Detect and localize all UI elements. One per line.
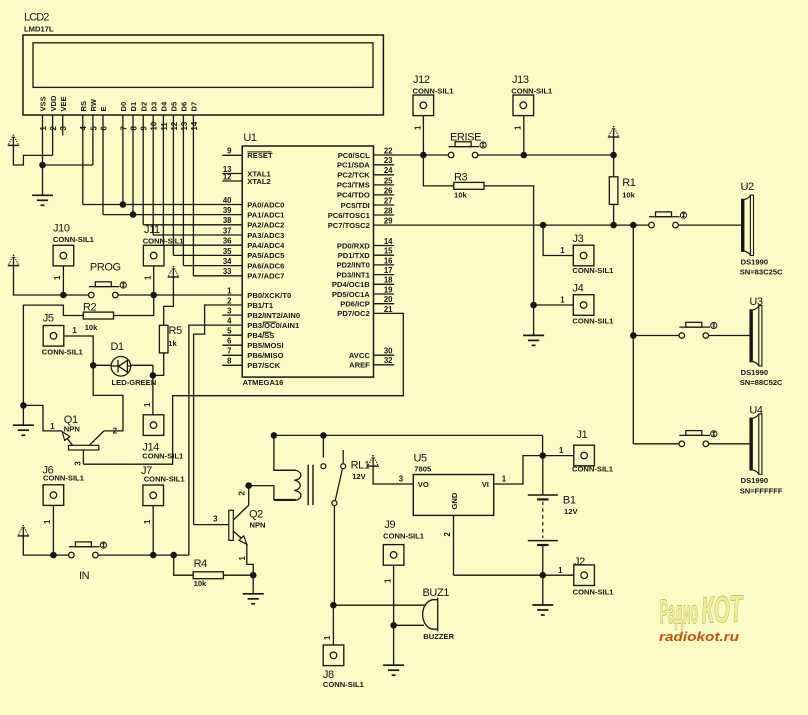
svg-text:PB0/XCK/T0: PB0/XCK/T0 — [247, 291, 291, 300]
U1 pin 26 PC4/TDO — [374, 194, 395, 196]
svg-text:PB6/MISO: PB6/MISO — [247, 351, 283, 360]
power flag VCC (PROG) — [8, 255, 19, 266]
power flag VCC (R5) — [168, 266, 179, 277]
voltage regulator U5 7805 body — [413, 475, 493, 516]
svg-text:PC5/TDI: PC5/TDI — [341, 201, 370, 210]
wire J10 pin 1 down — [62, 266, 64, 295]
wire Q1 base down — [82, 450, 84, 464]
svg-text:12V: 12V — [564, 507, 578, 516]
svg-text:VSS: VSS — [39, 96, 48, 111]
svg-text:PC0/SCL: PC0/SCL — [338, 151, 370, 160]
svg-text:38: 38 — [223, 216, 232, 225]
svg-text:CONN-SIL1: CONN-SIL1 — [572, 465, 614, 474]
svg-text:D5: D5 — [170, 101, 179, 111]
svg-text:RW: RW — [89, 98, 98, 111]
junction J6 on IN line — [50, 552, 57, 559]
relay RL1 contact — [321, 450, 346, 506]
wire LCD pin 3 VEE stub — [62, 115, 64, 136]
wire to U4 probe — [709, 443, 750, 445]
svg-text:36: 36 — [223, 237, 232, 246]
U1 pin 9 RESET — [222, 154, 242, 156]
svg-text:CONN-SIL1: CONN-SIL1 — [573, 587, 615, 596]
wire J9 pin 1 down — [393, 565, 395, 625]
svg-text:10: 10 — [150, 121, 159, 130]
svg-text:29: 29 — [384, 217, 393, 226]
connector J7 CONN-SIL1 — [143, 485, 164, 506]
svg-text:1: 1 — [72, 326, 77, 335]
svg-text:39: 39 — [223, 206, 232, 215]
U1 pin 18 PD4/OC1B — [374, 283, 395, 285]
wire U1 pin1 PB0 to PROG switch — [118, 294, 242, 296]
svg-text:PD5/OC1A: PD5/OC1A — [332, 290, 370, 299]
microcontroller U1 ATMEGA16 body — [242, 146, 373, 377]
junction R5 bottom — [150, 372, 157, 379]
wire J6 pin 1 down to IN line — [52, 506, 54, 555]
wire Q2 collector up — [248, 486, 250, 506]
svg-text:13: 13 — [180, 121, 189, 130]
U1 pin 32 AREF — [374, 364, 395, 366]
svg-text:CONN-SIL1: CONN-SIL1 — [572, 317, 614, 326]
connector J13 CONN-SIL1 — [513, 95, 534, 116]
svg-text:PB5/MOSI: PB5/MOSI — [247, 341, 283, 350]
svg-text:2: 2 — [49, 126, 58, 131]
svg-text:SN=FFFFFF: SN=FFFFFF — [740, 486, 783, 495]
svg-text:21: 21 — [384, 305, 393, 314]
svg-text:J12: J12 — [413, 74, 430, 86]
wire to ground — [22, 405, 24, 425]
svg-text:PD7/OC2: PD7/OC2 — [337, 309, 370, 318]
svg-text:CONN-SIL1: CONN-SIL1 — [144, 474, 186, 483]
svg-text:AREF: AREF — [349, 361, 370, 370]
svg-text:1: 1 — [143, 275, 152, 280]
svg-text:D4: D4 — [160, 101, 169, 111]
svg-text:DS1990: DS1990 — [741, 476, 768, 485]
svg-text:PC6/TOSC1: PC6/TOSC1 — [328, 211, 371, 220]
wire U5 VI to battery node — [494, 456, 543, 484]
svg-text:PC3/TMS: PC3/TMS — [337, 181, 370, 190]
wire LCD pin 1 VSS down to ground — [42, 115, 44, 195]
svg-text:1: 1 — [513, 125, 522, 130]
junction rail/coil — [271, 432, 278, 439]
connector J4 CONN-SIL1 — [573, 295, 594, 316]
svg-text:6: 6 — [99, 126, 108, 131]
junction VSS/RW — [39, 162, 46, 169]
wire ERISE to R1/VCC node — [478, 154, 614, 156]
wire RW to VSS node — [43, 164, 93, 166]
svg-text:BUZ1: BUZ1 — [423, 587, 450, 599]
push button (U2 reader) — [649, 212, 680, 228]
svg-text:24: 24 — [384, 166, 393, 175]
RESET overline — [247, 151, 271, 153]
junction B1-/J2/ground — [540, 572, 547, 579]
wire E to U1 PA1 (pin 39) — [103, 214, 242, 216]
U1 pin 24 PC2/TCK — [374, 174, 395, 176]
svg-text:1: 1 — [53, 275, 62, 280]
svg-text:D6: D6 — [180, 102, 189, 112]
svg-text:J13: J13 — [512, 74, 529, 86]
connector J9 CONN-SIL1 — [383, 545, 404, 566]
U1 pin 28 PC6/TOSC1 — [374, 214, 395, 216]
wire VCC to IN switch — [23, 536, 68, 555]
wire LCD D6 down — [182, 115, 184, 266]
svg-text:14: 14 — [384, 237, 393, 246]
junction PB0/J11/R2 — [150, 292, 157, 299]
wire U1 pin4 PB3 to IN line — [189, 325, 242, 555]
wire R4 right to Q2 emitter node — [224, 574, 254, 576]
junction J13 on PC0 wire — [521, 152, 528, 159]
junction J7 on IN line — [150, 552, 157, 559]
resistor R1 — [609, 177, 618, 205]
wire D6 to U1 PA6 line — [183, 265, 242, 267]
wire to ground — [393, 625, 395, 665]
svg-text:CONN-SIL1: CONN-SIL1 — [53, 235, 95, 244]
wire D3 to U1 PA3 line — [163, 244, 242, 246]
svg-text:PD0/RXD: PD0/RXD — [337, 241, 370, 250]
connector J10 CONN-SIL1 — [53, 245, 74, 266]
svg-text:12: 12 — [170, 121, 179, 130]
svg-text:PA0/ADC0: PA0/ADC0 — [247, 200, 284, 209]
svg-text:1: 1 — [143, 519, 152, 524]
ground (LCD VSS) — [32, 195, 53, 205]
svg-text:PA3/ADC3: PA3/ADC3 — [247, 231, 284, 240]
wire R5 bottom to LED node — [153, 353, 164, 375]
wire LCD D1 down — [132, 115, 134, 215]
wire Q2 emitter down — [247, 544, 253, 575]
svg-text:LMD17L: LMD17L — [24, 24, 54, 33]
wire Q1 emitter to ground node — [23, 405, 62, 431]
wire +12V rail — [274, 434, 543, 436]
wire U1 pin29 PC7 to U2 switch — [374, 224, 649, 226]
junction LED anode node — [90, 362, 97, 369]
svg-text:SN=83C25C: SN=83C25C — [740, 268, 783, 277]
svg-text:22: 22 — [384, 146, 393, 155]
svg-text:1: 1 — [502, 475, 507, 484]
wire relay arm node to buzzer — [333, 604, 424, 606]
svg-text:CONN-SIL1: CONN-SIL1 — [511, 86, 553, 95]
svg-text:J5: J5 — [43, 313, 54, 325]
svg-text:11: 11 — [160, 122, 169, 131]
svg-text:18: 18 — [384, 276, 393, 285]
connector J11 CONN-SIL1 — [143, 245, 164, 266]
svg-text:D2: D2 — [139, 102, 148, 112]
wire to J1 — [543, 455, 574, 457]
junction J3 branch — [540, 222, 547, 229]
svg-text:U1: U1 — [243, 132, 257, 144]
wire battery minus — [542, 545, 544, 575]
svg-text:19: 19 — [384, 285, 393, 294]
wire U5 GND down — [453, 515, 455, 575]
svg-text:3: 3 — [73, 461, 82, 466]
wire LCD RS down — [82, 115, 84, 205]
svg-text:32: 32 — [384, 356, 393, 365]
svg-text:VO: VO — [418, 480, 429, 489]
svg-text:1: 1 — [43, 519, 52, 524]
svg-text:8: 8 — [227, 357, 232, 366]
svg-text:1: 1 — [143, 402, 152, 407]
wire R2 right to PB0 node — [114, 295, 154, 316]
svg-text:D0: D0 — [119, 102, 128, 112]
U1 pin 23 PC1/SDA — [374, 164, 395, 166]
svg-text:30: 30 — [384, 347, 393, 356]
svg-text:7: 7 — [119, 126, 128, 130]
resistor R2 — [83, 312, 113, 319]
connector J6 CONN-SIL1 — [43, 485, 64, 506]
transistor Q1 NPN — [62, 431, 104, 450]
LED D1 LED-GREEN — [111, 357, 131, 377]
transistor Q2 NPN — [229, 505, 249, 544]
U1 pin 16 PD2/INT0 — [374, 264, 395, 266]
svg-text:J8: J8 — [323, 669, 334, 681]
U1 pin 5 PB4/SS — [222, 334, 242, 336]
svg-text:27: 27 — [384, 196, 393, 205]
junction Q1 emitter/R2/ground — [20, 402, 27, 409]
wire relay arm down to buzzer line — [333, 506, 335, 606]
wire U1 pin21 PD7 to Q1 base — [83, 313, 403, 464]
junction R1 bottom — [610, 222, 617, 229]
svg-text:PB1/T1: PB1/T1 — [247, 301, 274, 310]
svg-text:1: 1 — [413, 125, 422, 130]
svg-text:6: 6 — [227, 337, 232, 346]
svg-text:10k: 10k — [622, 190, 635, 199]
wire LCD D3 down — [162, 115, 164, 245]
svg-text:1: 1 — [323, 635, 332, 640]
power flag VCC (top left) — [8, 135, 19, 146]
relay RL1 coil — [274, 470, 301, 500]
push button (U4 reader) — [679, 431, 710, 447]
svg-text:PD4/OC1B: PD4/OC1B — [332, 280, 370, 289]
svg-text:9: 9 — [140, 126, 149, 131]
svg-text:PC4/TDO: PC4/TDO — [337, 191, 370, 200]
U1 pin 30 AVCC — [374, 354, 395, 356]
ground (battery) — [532, 605, 553, 615]
wire J13 pin 1 down — [523, 116, 525, 155]
svg-text:PA4/ADC4: PA4/ADC4 — [247, 241, 285, 250]
connector J12 CONN-SIL1 — [413, 95, 434, 116]
junction U3/U4 branch — [630, 222, 637, 229]
wire rail down to battery plus — [542, 435, 544, 455]
wire IN line down to R4 — [174, 555, 194, 575]
svg-text:34: 34 — [223, 257, 232, 266]
U1 pin 27 PC5/TDI — [374, 204, 395, 206]
svg-text:20: 20 — [384, 295, 393, 304]
wire U1 pin2 PB1 to Q2 base — [194, 305, 243, 525]
wire LCD D0 down — [122, 115, 124, 205]
U1 pin 3 PB2/INT2/AIN0 — [222, 314, 242, 316]
svg-text:PD3/INT1: PD3/INT1 — [336, 270, 370, 279]
wire to U3 probe — [709, 335, 750, 337]
svg-text:U2: U2 — [741, 181, 755, 193]
wire branch down to U3/U4 switches — [632, 225, 634, 444]
wire D2 to U1 PA2 line — [143, 224, 242, 226]
svg-text:10k: 10k — [454, 191, 467, 200]
svg-text:B1: B1 — [563, 495, 576, 507]
svg-text:AVCC: AVCC — [349, 351, 370, 360]
U1 pin 19 PD5/OC1A — [374, 293, 395, 295]
svg-text:Q2: Q2 — [249, 509, 263, 521]
wire battery plus — [542, 456, 544, 495]
junction relay contact — [320, 432, 327, 439]
U1 pin 17 PD3/INT1 — [374, 274, 395, 276]
svg-text:1: 1 — [39, 126, 48, 131]
wire D7 to U1 PA7 line — [193, 275, 242, 277]
svg-text:PA5/ADC5: PA5/ADC5 — [247, 251, 285, 260]
wire to J2 — [543, 574, 574, 576]
svg-text:U5: U5 — [414, 453, 428, 465]
svg-text:1: 1 — [238, 556, 247, 561]
junction D0 on PA0 line — [120, 201, 127, 208]
wire buzzer lower lead — [394, 624, 424, 626]
connector J2 CONN-SIL1 — [574, 565, 595, 586]
svg-text:12V: 12V — [352, 472, 366, 481]
wire U1 pin22 PC0 to ERISE switch — [374, 154, 449, 156]
svg-text:ERISE: ERISE — [450, 131, 481, 143]
svg-text:5: 5 — [89, 126, 98, 131]
wire to ground — [542, 575, 544, 605]
svg-text:R3: R3 — [454, 171, 468, 183]
svg-text:LCD2: LCD2 — [24, 11, 49, 23]
wire VCC to PROG switch — [14, 266, 89, 295]
svg-text:25: 25 — [384, 176, 393, 185]
svg-text:DS1990: DS1990 — [741, 257, 768, 266]
connector J5 CONN-SIL1 — [43, 326, 64, 347]
svg-text:R5: R5 — [169, 325, 183, 337]
svg-text:CONN-SIL1: CONN-SIL1 — [43, 474, 85, 483]
wire J4 to R3-ground wire — [534, 304, 574, 306]
svg-text:PA7/ADC7: PA7/ADC7 — [247, 272, 284, 281]
wire GND rail to battery minus — [454, 574, 543, 576]
U1 pin 15 PD1/TXD — [374, 254, 395, 256]
svg-text:4: 4 — [227, 317, 232, 326]
svg-text:КОТ: КОТ — [700, 588, 745, 631]
wire rail to relay coil top — [274, 435, 296, 470]
push button ERISE — [448, 142, 479, 158]
svg-text:J1: J1 — [577, 429, 588, 441]
svg-text:IN: IN — [79, 570, 90, 582]
svg-text:PROG: PROG — [90, 261, 121, 273]
svg-text:CONN-SIL1: CONN-SIL1 — [42, 348, 84, 357]
push button IN — [69, 542, 100, 558]
svg-text:D3: D3 — [149, 102, 158, 112]
ground (buzzer) — [383, 665, 404, 675]
svg-text:XTAL2: XTAL2 — [247, 177, 270, 186]
connector J8 CONN-SIL1 — [323, 645, 344, 666]
svg-text:5: 5 — [227, 327, 232, 336]
svg-text:3: 3 — [399, 475, 404, 484]
iButton probe U2 DS1990 — [741, 195, 753, 255]
junction R4 branch on IN line — [170, 552, 177, 559]
svg-text:PC2/TCK: PC2/TCK — [337, 171, 370, 180]
resistor R5 — [159, 325, 168, 353]
svg-text:PD2/INT0: PD2/INT0 — [336, 261, 369, 270]
ground (R3/J4) — [523, 335, 544, 345]
junction U3 row — [630, 332, 637, 339]
wire Q2 base — [194, 524, 229, 526]
svg-text:VEE: VEE — [59, 96, 68, 111]
wire to U3 switch — [633, 335, 679, 337]
svg-text:28: 28 — [384, 206, 393, 215]
junction Q2 emitter/R4/ground — [250, 572, 257, 579]
wire R2 left to Q1 emitter node — [23, 305, 83, 405]
PB4 SS overline — [263, 331, 272, 333]
U1 pin 20 PD6/ICP — [374, 303, 395, 305]
wire LED left lead — [93, 364, 111, 366]
U1 pin 14 PD0/RXD — [374, 245, 395, 247]
svg-text:10k: 10k — [194, 579, 207, 588]
junction Q2 collector — [245, 482, 252, 489]
svg-text:10k: 10k — [85, 323, 98, 332]
svg-text:9: 9 — [227, 147, 232, 156]
svg-text:U4: U4 — [749, 405, 763, 417]
svg-text:1: 1 — [560, 296, 565, 305]
svg-text:radiokot.ru: radiokot.ru — [659, 629, 739, 644]
radiokot logo — [659, 588, 745, 644]
wire VCC to U5 VO — [373, 466, 413, 484]
svg-text:2: 2 — [238, 491, 247, 496]
wire J7 pin 1 down to IN line — [152, 506, 154, 555]
svg-text:PB2/INT2/AIN0: PB2/INT2/AIN0 — [247, 311, 300, 320]
junction J10 — [60, 292, 67, 299]
power flag VCC (R1) — [608, 126, 619, 137]
wire to J3 — [543, 225, 573, 255]
svg-text:2: 2 — [113, 427, 118, 436]
junction D1 on PA1 line — [130, 211, 137, 218]
svg-text:23: 23 — [384, 156, 393, 165]
svg-text:J2: J2 — [574, 556, 585, 568]
svg-text:E: E — [99, 106, 108, 111]
svg-text:D1: D1 — [111, 341, 125, 353]
svg-text:GND: GND — [450, 492, 459, 509]
svg-text:LED-GREEN: LED-GREEN — [112, 378, 157, 387]
svg-text:PD1/TXD: PD1/TXD — [338, 251, 371, 260]
junction buzzer line/J8 — [330, 602, 337, 609]
svg-text:PA1/ADC1: PA1/ADC1 — [247, 210, 285, 219]
svg-text:37: 37 — [223, 226, 232, 235]
svg-text:2: 2 — [227, 296, 232, 305]
svg-text:3: 3 — [227, 307, 232, 316]
relay RL1 core — [308, 465, 313, 506]
svg-text:3: 3 — [213, 515, 218, 524]
connector J3 CONN-SIL1 — [573, 245, 594, 266]
U1 pin 7 PB6/MISO — [222, 354, 242, 356]
wire to J8 — [332, 605, 334, 645]
svg-text:14: 14 — [190, 121, 199, 130]
svg-text:1: 1 — [383, 578, 392, 583]
ground (Q1 emitter) — [13, 425, 34, 435]
wire VCC down to R5 — [164, 277, 174, 325]
U1 pin 13 XTAL1 — [222, 173, 242, 175]
svg-text:2: 2 — [443, 532, 452, 537]
wire LCD D7 down — [192, 115, 194, 276]
svg-text:3: 3 — [59, 126, 68, 131]
svg-text:26: 26 — [384, 186, 393, 195]
connector J14 CONN-SIL1 — [143, 415, 164, 436]
svg-text:BUZZER: BUZZER — [423, 632, 454, 641]
svg-text:1: 1 — [560, 246, 565, 255]
svg-text:D7: D7 — [190, 102, 199, 112]
junction PC0 wire at R1 — [610, 152, 617, 159]
wire to U4 switch — [633, 443, 679, 445]
wire VCC to R1 — [613, 137, 615, 177]
wire LCD pin 5 RW — [92, 115, 94, 165]
svg-text:PC1/SDA: PC1/SDA — [337, 161, 370, 170]
svg-text:R2: R2 — [83, 301, 97, 313]
svg-text:CONN-SIL1: CONN-SIL1 — [383, 531, 425, 540]
U1 pin 6 PB5/MOSI — [222, 344, 242, 346]
junction B1+/J1/VI — [540, 452, 547, 459]
svg-text:CONN-SIL1: CONN-SIL1 — [413, 86, 455, 95]
svg-text:RL1: RL1 — [351, 459, 370, 471]
U1 pin 12 XTAL2 — [222, 180, 242, 182]
